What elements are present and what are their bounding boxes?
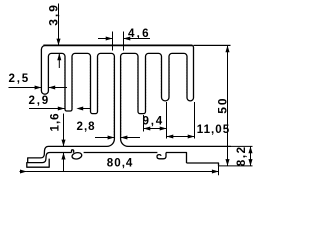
heatsink profile outline (top plate, hanging fins, center stem, stepped base) — [27, 45, 231, 167]
top edge extension line — [194, 44, 231, 46]
screw channel right — [157, 153, 166, 159]
svg-text:1,6: 1,6 — [49, 112, 62, 131]
svg-text:11,05: 11,05 — [197, 123, 230, 136]
svg-text:9,4: 9,4 — [143, 115, 165, 128]
dimension 50 (overall height) — [194, 45, 231, 165]
dimension 80,4 (overall width) — [20, 157, 219, 176]
dimension 11,05 (fin spacing) — [167, 102, 231, 139]
dimension 4,6 (fin root width) — [98, 27, 151, 51]
svg-text:50: 50 — [215, 96, 229, 113]
svg-text:2,9: 2,9 — [29, 94, 51, 107]
dimension 9,4 (fin spacing) — [143, 102, 167, 139]
dimension 2,5 (fin 1 thickness) — [9, 72, 68, 90]
svg-text:2,5: 2,5 — [9, 72, 31, 85]
fin face serration texture — [48, 58, 187, 138]
dimension 3,9 (top plate thickness) — [47, 3, 62, 68]
screw channel left — [72, 150, 74, 153]
dimension 2,8 (center stem thickness) — [77, 120, 141, 140]
dimension 2,9 (fin 2 thickness) — [29, 94, 91, 110]
svg-text:2,8: 2,8 — [77, 120, 96, 133]
svg-text:80,4: 80,4 — [107, 157, 134, 170]
svg-text:4,6: 4,6 — [128, 27, 151, 40]
top edge (emphasized) — [43, 44, 192, 46]
dimension 8,2 (base height) — [219, 145, 253, 166]
dimension 1,6 (web thickness) — [49, 112, 66, 171]
svg-text:3,9: 3,9 — [47, 3, 61, 26]
svg-text:8,2: 8,2 — [235, 145, 248, 166]
